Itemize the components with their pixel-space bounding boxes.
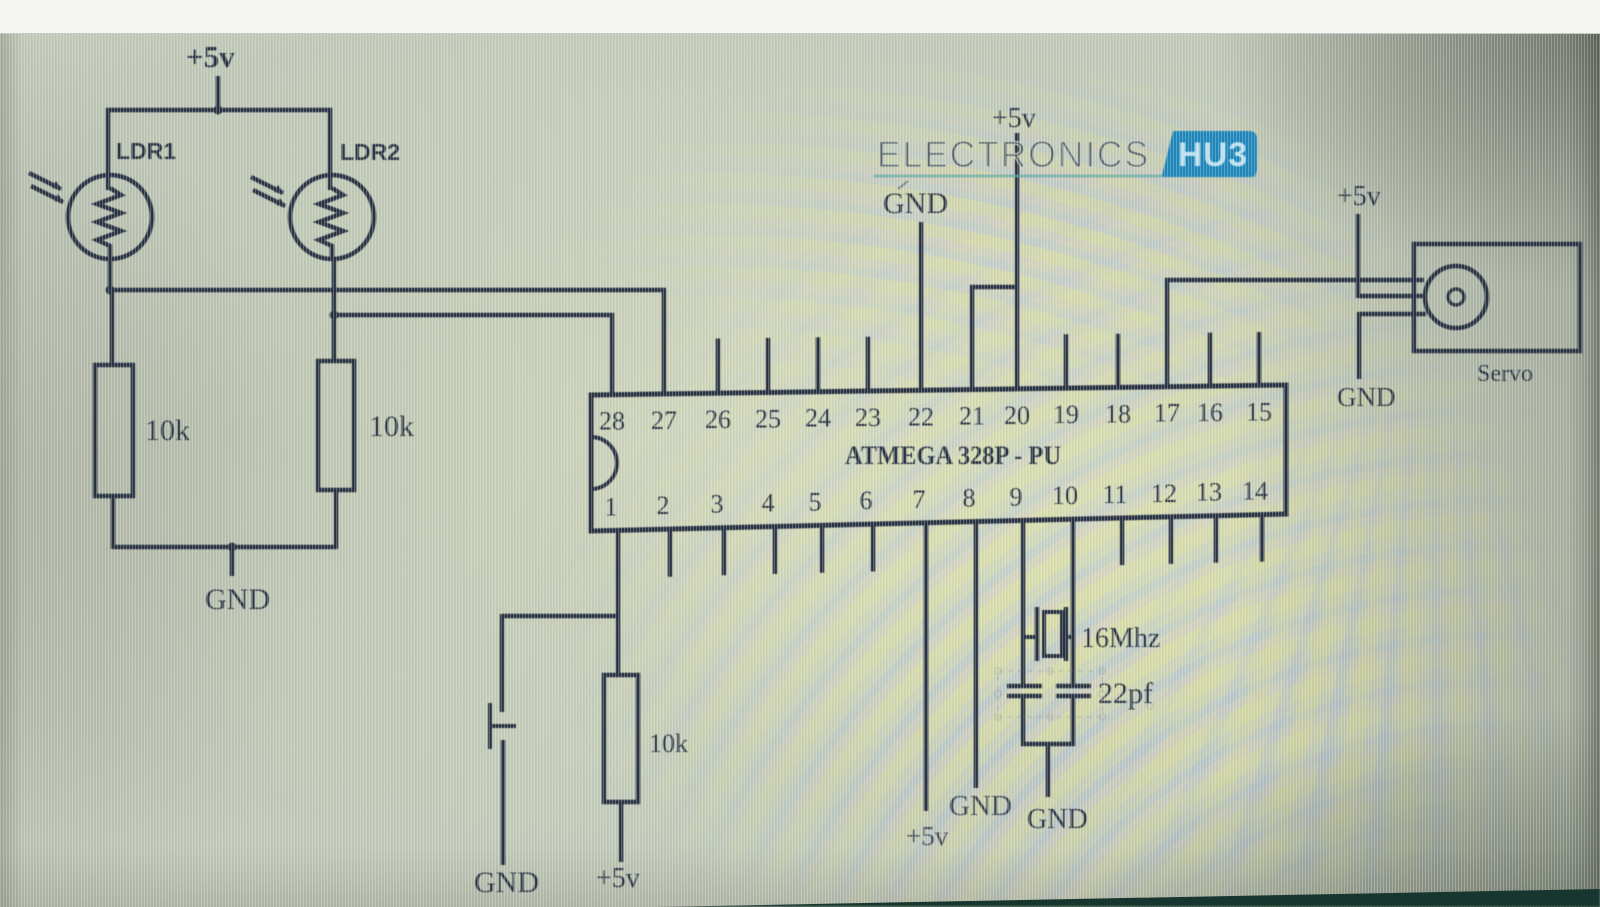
wire riser down to pin 28 [610,313,615,397]
wire servo +5v feed [1358,294,1426,299]
wire R2 bottom lead [334,489,339,549]
svg-text:Servo: Servo [1477,361,1533,387]
IC U1 pin-1 notch [591,437,617,489]
servo M1 body box [1414,244,1580,351]
pin 25 stub [766,338,771,392]
ElectronicsHub logo underline [874,175,1256,178]
svg-text:20: 20 [1004,401,1030,430]
wire switch bottom lead to GND [501,740,506,865]
pin 14 stub [1260,515,1265,562]
wire divider ground rail [113,545,336,550]
pin 6 stub [871,524,876,571]
selection artifact dashes around caps [995,668,1153,720]
op IC U1 ATMEGA328P body (tilted quad) [591,385,1286,531]
wire pin 21 jog to +5v net [970,285,1019,290]
svg-text:5: 5 [809,487,822,516]
LDR LDR1 body circle [68,175,152,259]
wire divider tap B to pin 28 riser [334,313,614,318]
wire node A down to R1 [110,290,115,366]
svg-text:+5v: +5v [992,103,1036,134]
wire +5v stub down to rail [216,76,221,112]
pin 13 stub [1214,516,1219,563]
svg-text:LDR1: LDR1 [116,138,176,164]
pin 26 stub [716,339,721,393]
svg-text:18: 18 [1105,399,1131,428]
svg-text:10k: 10k [369,410,414,443]
pin 16 stub [1208,333,1213,386]
svg-text:25: 25 [755,405,781,434]
svg-text:7: 7 [913,485,926,514]
node junction ground rail [228,543,237,552]
LDR LDR2 body circle [290,175,374,259]
svg-text:27: 27 [651,406,677,435]
svg-text:GND: GND [1337,382,1396,412]
wire cap ground stub [1046,744,1051,797]
svg-text:13: 13 [1196,478,1222,507]
wire R3 bottom lead [619,801,624,862]
resistor R2 10k body [318,361,354,490]
pin 24 stub [816,337,821,391]
svg-text:15: 15 [1246,397,1272,426]
pin 12 stub [1169,517,1174,564]
ElectronicsHub logo HUB badge [1162,131,1257,177]
pin 18 stub [1116,334,1121,387]
wire switch top lead [500,614,505,712]
svg-text:3: 3 [711,490,724,519]
wire ground stub [230,547,235,576]
wire pin 22 to GND [919,222,924,390]
wire pin 20 to +5v (crosses logo) [1015,133,1020,389]
pin 3 stub [722,528,727,576]
svg-text:10k: 10k [145,414,190,447]
resistor R1 10k body [95,365,133,496]
node junction +5v rail [214,106,223,115]
wire pin 17 riser (servo signal) [1165,278,1170,387]
wire pin 8 to GND [974,522,979,788]
wire R1 bottom lead [111,495,116,549]
svg-text:ATMEGA 328P - PU: ATMEGA 328P - PU [845,441,1061,470]
wire pin 9 down to C1 [1021,520,1026,686]
wire LDR2 top lead [328,108,333,190]
svg-text:GND: GND [949,790,1012,822]
wire LDR1 top lead [106,108,111,190]
svg-text:17: 17 [1154,399,1180,428]
svg-text:26: 26 [705,405,731,434]
capacitor C2 22pf [1056,684,1091,689]
wire LDR1 bottom lead [108,259,113,292]
LDR2 light arrows [251,177,283,193]
svg-text:LDR2: LDR2 [340,139,400,165]
pin 5 stub [820,525,825,573]
svg-text:23: 23 [855,403,881,432]
capacitor C1 22pf [1007,684,1042,689]
svg-text:+5v: +5v [596,863,640,894]
pin 4 stub [773,527,778,575]
wire servo signal run [1165,278,1424,283]
wire reset branch to switch [502,614,620,619]
wire cap ground bar [1021,742,1074,747]
switch S1 (push button) [488,703,492,749]
svg-text:GND: GND [205,583,270,616]
node A (LDR1/R1 divider tap) [106,286,115,295]
svg-text:2: 2 [657,491,670,520]
svg-text:11: 11 [1102,480,1127,509]
resistor R3 10k body (reset pullup) [604,675,638,802]
wire pin 1 down [616,530,621,677]
servo output gear circle [1425,266,1487,328]
wire pin 7 to +5v [924,523,929,811]
svg-text:19: 19 [1053,400,1079,429]
svg-text:22pf: 22pf [1098,677,1153,710]
stray slash artifact near logo underline [898,181,908,189]
svg-text:14: 14 [1242,477,1268,506]
svg-text:+5v: +5v [906,821,949,851]
svg-text:HU3: HU3 [1178,136,1248,174]
pin 2 stub [668,529,673,577]
servo shaft circle [1448,289,1464,305]
wire servo +5v drop [1356,214,1361,298]
svg-text:+5v: +5v [186,39,235,74]
wire C1 bottom lead [1021,696,1026,746]
svg-text:GND: GND [883,187,948,220]
svg-text:16Mhz: 16Mhz [1081,623,1160,654]
svg-text:21: 21 [959,402,985,431]
svg-text:28: 28 [599,407,625,436]
LDR2 internal resistor zigzag [319,188,343,260]
wire servo GND feed [1359,312,1426,317]
node B (LDR2/R2 divider tap) [330,311,339,320]
svg-text:24: 24 [805,404,831,433]
wire pin 21 riser [970,285,975,390]
wire C2 bottom lead [1071,696,1076,746]
svg-text:9: 9 [1010,482,1023,511]
svg-text:ELECTRONICS: ELECTRONICS [877,134,1150,175]
svg-text:10: 10 [1052,481,1078,510]
wire pin 10 down to C2 [1071,519,1076,686]
svg-text:1: 1 [605,492,618,521]
svg-text:8: 8 [963,484,976,513]
crystal Y1 16Mhz [1023,635,1036,639]
svg-text:16: 16 [1197,398,1223,427]
svg-text:6: 6 [860,486,873,515]
LDR1 internal resistor zigzag [97,188,121,260]
svg-text:GND: GND [1027,804,1088,835]
pin 23 stub [866,337,871,391]
svg-text:GND: GND [474,866,539,899]
wire divider tap A to pin 27 riser [110,288,666,293]
svg-text:4: 4 [762,489,775,518]
wire riser down to pin 27 [662,288,667,396]
svg-text:+5v: +5v [1337,181,1381,212]
wire +5v top rail [106,108,332,113]
LDR1 light arrows [29,173,61,189]
wire servo GND drop [1357,312,1362,379]
svg-text:22: 22 [908,402,934,431]
pin 11 stub [1120,518,1125,565]
svg-text:10k: 10k [649,729,688,758]
pin 19 stub [1064,334,1069,387]
wire LDR2 bottom lead / node B [332,259,337,363]
svg-text:12: 12 [1151,479,1177,508]
pin 15 stub [1257,332,1262,385]
